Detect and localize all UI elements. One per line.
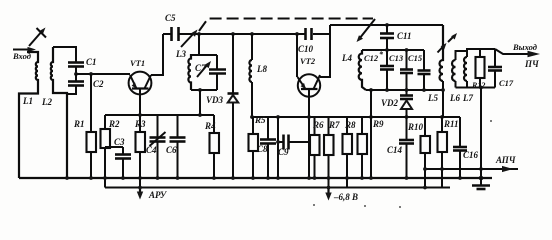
svg-text:VT1: VT1	[130, 58, 145, 68]
scan speck	[313, 204, 315, 206]
svg-text:C6: C6	[166, 145, 177, 155]
resistor R10	[421, 117, 431, 188]
capacitor C11	[380, 23, 394, 50]
crossed gang arrows L5/L6	[438, 33, 458, 53]
svg-text:VT2: VT2	[300, 56, 316, 66]
wire VT1 collector riser	[151, 34, 163, 75]
svg-text:L1: L1	[22, 96, 33, 106]
resistor R1	[87, 72, 97, 178]
svg-text:R5: R5	[254, 115, 266, 125]
svg-text:C14: C14	[387, 145, 403, 155]
capacitor C4 trimmer	[150, 115, 166, 178]
svg-text:C15: C15	[408, 53, 423, 63]
resistor R2	[101, 115, 111, 188]
node rail to tank1	[197, 32, 201, 36]
tank2 top wire	[362, 49, 424, 51]
AGC arrow АРУ	[137, 188, 143, 200]
wire tap to VT1 emitter	[76, 73, 130, 75]
resistor R9	[358, 117, 368, 178]
resistor R6	[310, 117, 320, 178]
capacitor C9	[276, 117, 309, 178]
resistor R7	[324, 117, 334, 188]
coil L5	[440, 25, 445, 117]
svg-text:–6,8 В: –6,8 В	[333, 192, 358, 202]
output arrow Выход	[495, 49, 540, 57]
resistor R12	[476, 49, 485, 88]
gang arrow at L4	[357, 19, 376, 42]
svg-text:C11: C11	[397, 31, 412, 41]
coil L8	[249, 32, 254, 117]
power feed arrow -6,8 В	[325, 188, 331, 201]
coil L7	[464, 49, 495, 88]
tank1 loop wires	[191, 55, 217, 90]
svg-text:C5: C5	[165, 13, 176, 23]
wire W3 base bias	[250, 115, 460, 119]
svg-text:C2: C2	[93, 79, 104, 89]
svg-text:R3: R3	[134, 119, 146, 129]
svg-text:R7: R7	[328, 120, 340, 130]
capacitor C1	[68, 63, 84, 75]
capacitor C17	[488, 49, 502, 88]
wire tank1 bottom to W2	[199, 90, 201, 115]
svg-text:R2: R2	[108, 119, 120, 129]
svg-text:L5: L5	[427, 93, 438, 103]
svg-text:Выход: Выход	[512, 42, 538, 52]
svg-text:C13: C13	[389, 53, 404, 63]
coil L6	[452, 51, 466, 88]
svg-text:R12: R12	[471, 81, 485, 90]
svg-text:АПЧ: АПЧ	[495, 155, 516, 165]
svg-text:C4: C4	[146, 145, 157, 155]
capacitor C10	[306, 28, 312, 40]
transistor VT2	[295, 25, 330, 178]
coil L2	[51, 47, 76, 178]
svg-text:ПЧ: ПЧ	[524, 59, 539, 69]
svg-text:L6: L6	[449, 93, 460, 103]
AFC line АПЧ	[423, 166, 518, 172]
wire tank2 ground drop	[369, 88, 373, 178]
svg-text:VD3: VD3	[206, 95, 224, 105]
varicap VD2	[400, 90, 413, 117]
svg-text:R6: R6	[312, 120, 324, 130]
capacitor C16	[453, 117, 467, 178]
antenna symbol	[29, 28, 46, 47]
capacitor C15	[418, 50, 431, 92]
svg-text:R1: R1	[73, 119, 85, 129]
resistor R11	[438, 117, 448, 188]
svg-text:АРУ: АРУ	[148, 190, 168, 200]
svg-text:C7: C7	[195, 63, 206, 73]
svg-text:R4: R4	[204, 121, 216, 131]
transistor VT1	[129, 72, 152, 132]
svg-text:R8: R8	[344, 120, 356, 130]
coil L1	[19, 52, 38, 178]
svg-text:R9: R9	[372, 119, 384, 129]
coil L4	[359, 50, 366, 90]
rail A top wire	[163, 33, 330, 35]
capacitor C8	[260, 117, 276, 178]
svg-text:L7: L7	[462, 93, 473, 103]
line B top wire	[330, 24, 443, 26]
svg-text:L2: L2	[41, 97, 52, 107]
gang arrow at C5	[181, 30, 198, 48]
wire output loop bottom	[456, 87, 496, 89]
tank2 bottom wire	[366, 89, 443, 91]
svg-text:C9: C9	[278, 147, 289, 157]
wire output ground leg	[479, 86, 484, 181]
svg-text:C16: C16	[463, 150, 479, 160]
svg-text:L4: L4	[341, 53, 352, 63]
capacitor C7 variable	[197, 55, 226, 90]
node tank1 bottom	[198, 88, 202, 92]
svg-text:L3: L3	[175, 49, 186, 59]
ground symbol	[472, 178, 490, 189]
resistor R5	[249, 117, 259, 178]
svg-text:L8: L8	[256, 64, 267, 74]
diode VD3	[228, 32, 239, 178]
svg-text:R10: R10	[407, 122, 424, 132]
wire rail to tank1 top	[198, 34, 200, 55]
capacitor C5	[172, 27, 179, 41]
capacitor C12	[380, 48, 394, 92]
capacitor C3	[105, 147, 131, 178]
input arrow	[13, 47, 36, 52]
dashed gang line	[199, 19, 373, 32]
svg-text:C3: C3	[114, 137, 125, 147]
svg-text:R11: R11	[443, 119, 459, 129]
scan speck	[364, 205, 366, 207]
scan speck	[490, 120, 492, 122]
svg-text:C1: C1	[86, 57, 97, 67]
svg-text:VD2: VD2	[381, 98, 399, 108]
svg-text:C8: C8	[257, 144, 268, 154]
svg-text:C12: C12	[364, 53, 379, 63]
ground bus1	[19, 176, 492, 180]
bus2 AGC/supply line	[105, 186, 450, 190]
capacitor C6	[170, 115, 186, 178]
capacitor C2	[67, 74, 84, 94]
wire W2 AGC node	[105, 113, 214, 117]
node C1/C2 tap	[74, 72, 78, 76]
capacitor C13	[400, 48, 413, 92]
coil L3	[188, 54, 191, 90]
resistor R4	[210, 115, 220, 178]
scan speck	[399, 206, 401, 208]
svg-text:C10: C10	[298, 44, 314, 54]
capacitor C14	[399, 117, 414, 178]
svg-text:C17: C17	[499, 78, 514, 88]
resistor R3	[136, 132, 146, 188]
resistor R8	[343, 117, 353, 188]
